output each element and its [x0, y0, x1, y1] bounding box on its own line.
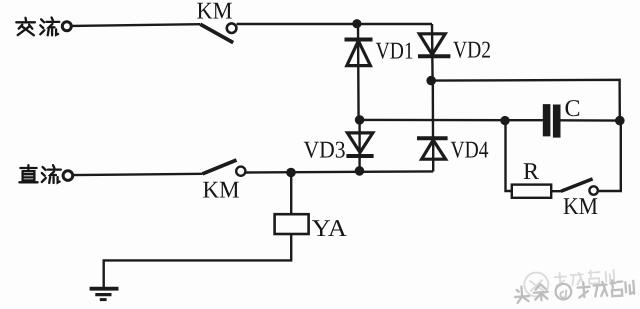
- svg-text:KM: KM: [563, 194, 598, 220]
- svg-text:C: C: [565, 96, 581, 122]
- svg-text:VD1: VD1: [376, 38, 414, 64]
- svg-text:YA: YA: [312, 216, 348, 242]
- svg-text:KM: KM: [197, 0, 233, 25]
- svg-text:VD3: VD3: [304, 138, 346, 164]
- svg-text:VD2: VD2: [453, 37, 491, 63]
- svg-text:KM: KM: [203, 178, 240, 204]
- svg-text:VD4: VD4: [451, 138, 489, 164]
- svg-text:R: R: [523, 159, 539, 185]
